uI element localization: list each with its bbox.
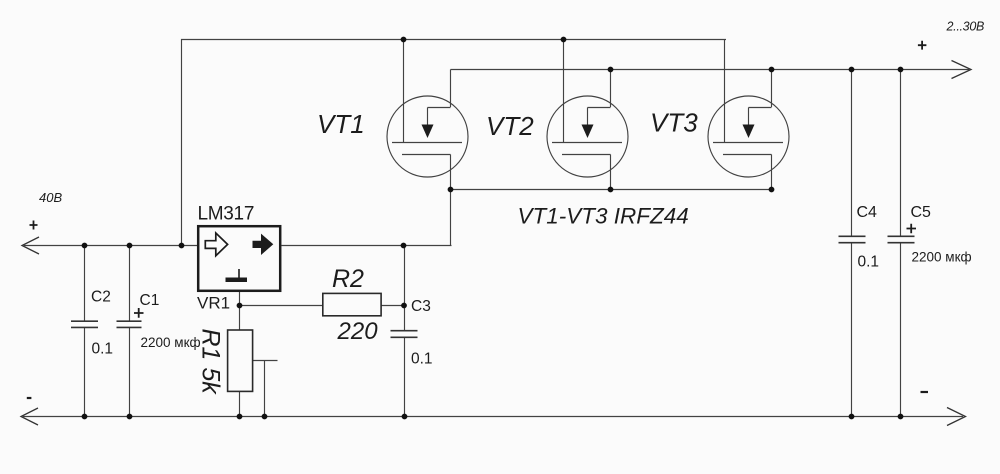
svg-text:220: 220 bbox=[337, 318, 379, 345]
svg-text:0.1: 0.1 bbox=[92, 341, 114, 358]
svg-text:2...30В: 2...30В bbox=[946, 20, 985, 34]
svg-text:VT1: VT1 bbox=[317, 109, 365, 139]
svg-text:VT3: VT3 bbox=[650, 108, 698, 138]
svg-text:R1 5k: R1 5k bbox=[197, 329, 225, 396]
svg-text:VT2: VT2 bbox=[486, 111, 534, 141]
svg-text:VT1-VT3 IRFZ44: VT1-VT3 IRFZ44 bbox=[518, 204, 689, 229]
svg-text:C1: C1 bbox=[140, 292, 160, 309]
svg-text:C4: C4 bbox=[857, 204, 878, 221]
svg-text:C5: C5 bbox=[911, 204, 932, 221]
svg-text:VR1: VR1 bbox=[197, 294, 230, 313]
svg-text:0.1: 0.1 bbox=[858, 254, 880, 271]
svg-text:C2: C2 bbox=[91, 289, 111, 306]
svg-text:LM317: LM317 bbox=[198, 204, 255, 225]
svg-text:R2: R2 bbox=[332, 265, 364, 293]
svg-text:40В: 40В bbox=[39, 190, 62, 205]
svg-text:2200 мкф: 2200 мкф bbox=[912, 250, 972, 265]
svg-text:C3: C3 bbox=[411, 298, 431, 315]
svg-text:2200 мкф: 2200 мкф bbox=[141, 335, 201, 350]
svg-text:0.1: 0.1 bbox=[411, 351, 433, 368]
